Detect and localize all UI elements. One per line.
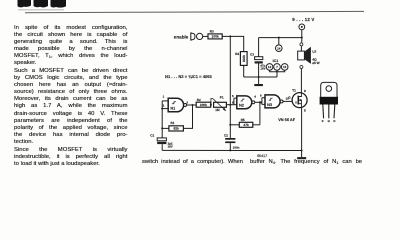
- svg-text:T1: T1: [292, 89, 296, 93]
- svg-text:N1 . . . N3 = ¾IC1 = 4093: N1 . . . N3 = ¾IC1 = 4093: [165, 74, 213, 79]
- svg-text:R3: R3: [210, 30, 214, 34]
- node R5 left: [229, 124, 231, 126]
- ground rail (bottom): [162, 149, 301, 151]
- svg-text:N3: N3: [267, 103, 272, 107]
- node IC ground join: [276, 71, 278, 73]
- svg-text:S: S: [304, 109, 306, 113]
- potentiometer P1 1M: [211, 96, 227, 112]
- svg-text:R2: R2: [197, 98, 201, 102]
- wire N1 out: [187, 104, 197, 106]
- node C3 / ground rail: [258, 76, 260, 78]
- svg-text:enable: enable: [174, 35, 189, 40]
- N1 input tie + pins 1,2: [161, 95, 168, 138]
- svg-text:2: 2: [163, 104, 165, 108]
- loudspeaker LS: [298, 43, 320, 69]
- node N1 out / R1 feedback: [192, 104, 194, 106]
- gate N2 (Schmitt NAND): [237, 96, 255, 109]
- svg-text:100k: 100k: [200, 103, 207, 107]
- wire enable node down to N2 input: [229, 36, 231, 104]
- svg-text:G: G: [328, 119, 331, 123]
- N3 input tie + pins 8,9: [260, 94, 265, 105]
- svg-text:R5: R5: [241, 118, 245, 122]
- resistor R5 47k: [239, 118, 253, 127]
- resistor R2 100k: [196, 98, 211, 107]
- capacitor C3 47u electrolytic: [250, 38, 266, 77]
- svg-text:R4: R4: [235, 52, 239, 56]
- wire node down to R5: [229, 105, 231, 125]
- wire T1 source down: [301, 108, 303, 151]
- svg-text:13: 13: [283, 65, 287, 69]
- svg-text:C1: C1: [150, 133, 154, 137]
- wire R5 left: [230, 124, 239, 126]
- wire R3 to R4 corner: [222, 36, 244, 51]
- connector pin (male half): [190, 33, 195, 41]
- svg-text:820k: 820k: [242, 55, 246, 62]
- svg-text:100k: 100k: [212, 35, 219, 39]
- svg-text:P1: P1: [220, 96, 224, 100]
- wire R1 up to N1 output: [183, 105, 192, 128]
- node N2out/N3in/R5: [259, 101, 261, 103]
- column rule (top): [25, 11, 364, 12]
- svg-text:C3: C3: [250, 53, 254, 57]
- wire R4 to mid ground rail: [243, 65, 245, 77]
- svg-text:14: 14: [277, 47, 281, 51]
- svg-text:N1: N1: [170, 106, 175, 110]
- svg-text:4: 4: [254, 94, 256, 98]
- svg-text:D: D: [304, 89, 307, 93]
- node C1 / R1: [161, 127, 163, 129]
- wire speaker to T1 drain: [300, 69, 302, 94]
- supply terminal: [299, 24, 305, 38]
- svg-text:N2: N2: [239, 104, 244, 108]
- T1 package drawing (TO-202, S G D): [320, 82, 338, 122]
- svg-text:G: G: [288, 95, 291, 99]
- gate N1 (Schmitt NAND): [168, 98, 186, 112]
- svg-text:47k: 47k: [243, 123, 249, 127]
- cropped headline (previous article, cut off at top edge): [18, 0, 67, 11]
- svg-text:1: 1: [163, 95, 165, 99]
- transistor T1 VN66AF MOSFET: [288, 89, 307, 113]
- svg-text:8: 8: [260, 94, 262, 98]
- svg-text:VN 66 AF: VN 66 AF: [278, 117, 296, 122]
- wire socket to R3: [203, 35, 208, 37]
- svg-text:85417: 85417: [257, 154, 267, 158]
- svg-text:100n: 100n: [233, 146, 240, 150]
- capacitor C2 100n: [224, 125, 240, 151]
- svg-text:D: D: [333, 119, 335, 123]
- svg-text:16V: 16V: [260, 67, 265, 71]
- wire N2 out to N3 in: [255, 101, 262, 103]
- resistor R4 820k: [235, 52, 247, 66]
- +V supply rail: [259, 37, 302, 39]
- svg-text:82k: 82k: [174, 127, 180, 131]
- svg-text:12: 12: [268, 65, 272, 69]
- capacitor C1 2u2 electrolytic: [150, 133, 173, 150]
- mid ground rail: [244, 76, 277, 78]
- node C2 / rail: [229, 149, 231, 151]
- svg-text:C2: C2: [224, 134, 228, 138]
- svg-text:9 . . . 12 V: 9 . . . 12 V: [292, 17, 314, 22]
- gate N3 (Schmitt NAND): [265, 95, 283, 108]
- node R2 / P1 wiper tie: [210, 104, 212, 106]
- node rail / supply drop: [301, 37, 303, 39]
- ground symbol (bottom): [297, 151, 306, 160]
- svg-text:IC1: IC1: [273, 59, 279, 63]
- N2 input tie + pins 5,6: [232, 94, 237, 105]
- wire N3 out to T1 gate: [283, 100, 296, 102]
- wire P1 to N2: [226, 104, 234, 106]
- IC1 pin 13: [277, 64, 288, 72]
- resistor R3 100k: [208, 30, 222, 39]
- svg-text:5: 5: [232, 94, 234, 98]
- connector socket (female circle): [197, 33, 203, 39]
- IC1 pin 14: [276, 38, 283, 52]
- wire rail to speaker: [301, 38, 303, 43]
- node rail / T1 source: [301, 150, 303, 152]
- wire to R1: [162, 127, 169, 129]
- resistor R1 82k: [169, 121, 184, 131]
- svg-text:3: 3: [186, 100, 188, 104]
- wire R5 right: [253, 124, 260, 126]
- ground symbol (mid rail): [254, 77, 263, 86]
- svg-text:R1: R1: [171, 121, 175, 125]
- node rail / IC1 pin14: [278, 37, 280, 39]
- IC1 pin 12: [266, 64, 277, 72]
- wire node down to R5 right: [259, 102, 261, 125]
- svg-text:S: S: [322, 119, 324, 123]
- IC1 pin 7: [274, 64, 281, 77]
- node P1/N2/enable/R5: [229, 104, 231, 106]
- node: enable line / N2 input drop: [229, 35, 231, 37]
- svg-text:16V: 16V: [168, 145, 173, 149]
- svg-text:1M: 1M: [215, 108, 220, 112]
- svg-text:≥5 W: ≥5 W: [312, 61, 319, 65]
- svg-text:LS: LS: [312, 50, 316, 54]
